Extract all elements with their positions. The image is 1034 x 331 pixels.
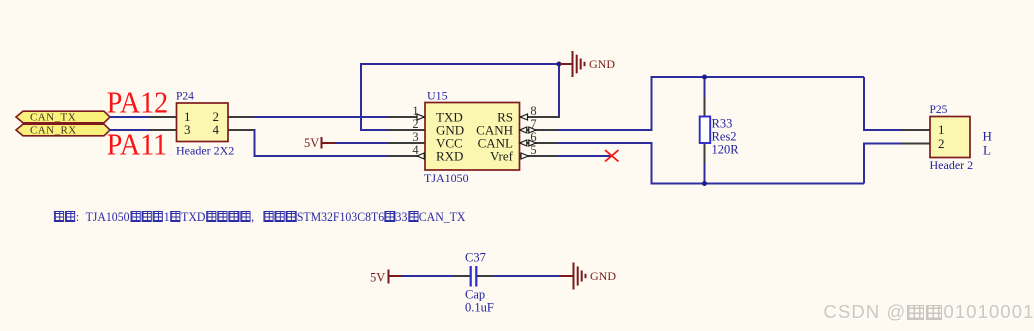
P24 pin 1	[150, 116, 176, 118]
note text	[53, 210, 465, 225]
resistor R33	[700, 77, 740, 184]
value 0.1uF	[465, 300, 494, 314]
ground GND (top)	[560, 51, 615, 77]
junction dot bus top	[702, 75, 707, 80]
net label PA11	[107, 129, 167, 162]
wire C37 to GND	[493, 275, 561, 277]
junction dot bus bottom	[702, 181, 707, 186]
pin number 3	[184, 122, 191, 137]
svg-text:C37: C37	[465, 251, 486, 265]
pin name Vref	[490, 149, 514, 164]
pin direction arrows	[417, 114, 536, 159]
svg-text:CAN_RX: CAN_RX	[30, 125, 77, 137]
U15 pin 5 (Vref)	[520, 143, 560, 157]
P24 pin 2	[228, 116, 255, 118]
pin name RS	[497, 110, 513, 125]
net label PA12	[107, 87, 168, 120]
wire CAN_TX to P24 pin 1	[110, 116, 151, 118]
svg-text:Res2: Res2	[712, 130, 737, 144]
svg-text:TJA1050: TJA1050	[424, 171, 469, 185]
pin name VCC	[436, 136, 463, 151]
svg-text:P25: P25	[930, 104, 948, 116]
P24 pin 4	[228, 129, 255, 131]
svg-text:PA12: PA12	[107, 87, 168, 120]
U15 pin 3 (VCC)	[388, 130, 425, 144]
wire ground rail down to U15 RS pin	[558, 64, 559, 117]
power 5V (bottom)	[370, 270, 403, 285]
svg-text:H: H	[983, 129, 992, 144]
header P24	[150, 91, 255, 158]
svg-text:Vref: Vref	[490, 149, 514, 164]
svg-text:5V: 5V	[370, 271, 385, 285]
svg-text:PA11: PA11	[107, 129, 167, 162]
svg-text:Header 2: Header 2	[930, 158, 974, 172]
wire P24 pin 2 to U15 TXD	[254, 116, 389, 118]
svg-text:CAN_TX: CAN_TX	[30, 112, 76, 124]
pin number 2	[938, 136, 945, 151]
wire bus top to P25 pin 1	[864, 77, 903, 130]
comment Header 2	[930, 158, 974, 172]
designator P24	[176, 91, 194, 103]
svg-text:120R: 120R	[712, 143, 740, 157]
svg-text:0.1uF: 0.1uF	[465, 300, 494, 314]
wire bus bottom to P25 pin 2	[864, 144, 903, 184]
pin number 4	[213, 122, 220, 137]
svg-text:U15: U15	[427, 89, 448, 103]
wire U15 CANL to bus bottom rail	[558, 143, 864, 184]
pin number 1	[184, 109, 191, 124]
U15 pin 6 (CANL)	[520, 130, 560, 144]
U15 pin 7 (CANH)	[520, 117, 560, 131]
net label L	[983, 143, 991, 158]
svg-text:GND: GND	[590, 269, 616, 283]
designator P25	[930, 104, 948, 116]
P24 pin 3	[150, 129, 176, 131]
svg-text:3: 3	[412, 130, 418, 144]
wire 5V to C37	[402, 275, 454, 277]
port CAN_TX	[16, 111, 110, 123]
P24 body	[177, 103, 229, 142]
U15 pin 8 (RS)	[520, 104, 560, 118]
part name TJA1050	[424, 171, 469, 185]
svg-text:1: 1	[938, 122, 945, 137]
svg-text:8: 8	[530, 104, 536, 118]
comment Header 2X2	[176, 143, 234, 157]
U15 body	[425, 103, 520, 171]
junction dot at ground	[557, 62, 562, 67]
U15 pin 4 (RXD)	[388, 143, 425, 157]
svg-text:4: 4	[412, 143, 419, 157]
part name Cap	[465, 288, 485, 302]
no-ERC marker (red X) on Vref	[605, 150, 619, 162]
designator R33	[712, 117, 733, 131]
value 120R	[712, 143, 740, 157]
designator C37	[465, 251, 486, 265]
ground GND (bottom)	[560, 263, 616, 290]
header P25	[902, 104, 973, 172]
svg-text:GND: GND	[589, 57, 615, 71]
svg-text:L: L	[983, 143, 991, 158]
power 5V (top)	[304, 136, 336, 150]
net label H	[983, 129, 992, 144]
port CAN_RX	[16, 124, 110, 136]
svg-text:R33: R33	[712, 117, 733, 131]
watermark CSDN	[824, 301, 1034, 323]
svg-text:4: 4	[213, 122, 220, 137]
pin name TXD	[436, 110, 463, 125]
capacitor C37	[453, 251, 494, 315]
wire U15 Vref stub	[558, 155, 610, 157]
part name Res2	[712, 130, 737, 144]
pin name CANL	[478, 136, 513, 151]
svg-text:P24: P24	[176, 91, 194, 103]
pin name CANH	[476, 123, 513, 138]
svg-text:3: 3	[184, 122, 191, 137]
pin name RXD	[436, 149, 463, 164]
U15 pin 2 (GND)	[388, 117, 425, 131]
designator U15	[427, 89, 448, 103]
svg-text:Header 2X2: Header 2X2	[176, 143, 234, 157]
wire U15 CANH to bus top rail	[558, 77, 864, 130]
wire 5V to U15 VCC	[335, 142, 389, 144]
pin number 2	[213, 109, 220, 124]
wire P24 pin 4 to U15 RXD	[254, 130, 389, 156]
pin name GND	[436, 123, 464, 138]
pin number 1	[938, 122, 945, 137]
wire CAN_RX to P24 pin 3	[110, 129, 151, 131]
wire U15 GND pin to ground rail	[361, 64, 559, 130]
U15 pin 1 (TXD)	[388, 104, 425, 118]
svg-text:RXD: RXD	[436, 149, 463, 164]
IC U15	[388, 89, 560, 185]
svg-text:2: 2	[938, 136, 945, 151]
svg-text:5V: 5V	[304, 136, 319, 150]
